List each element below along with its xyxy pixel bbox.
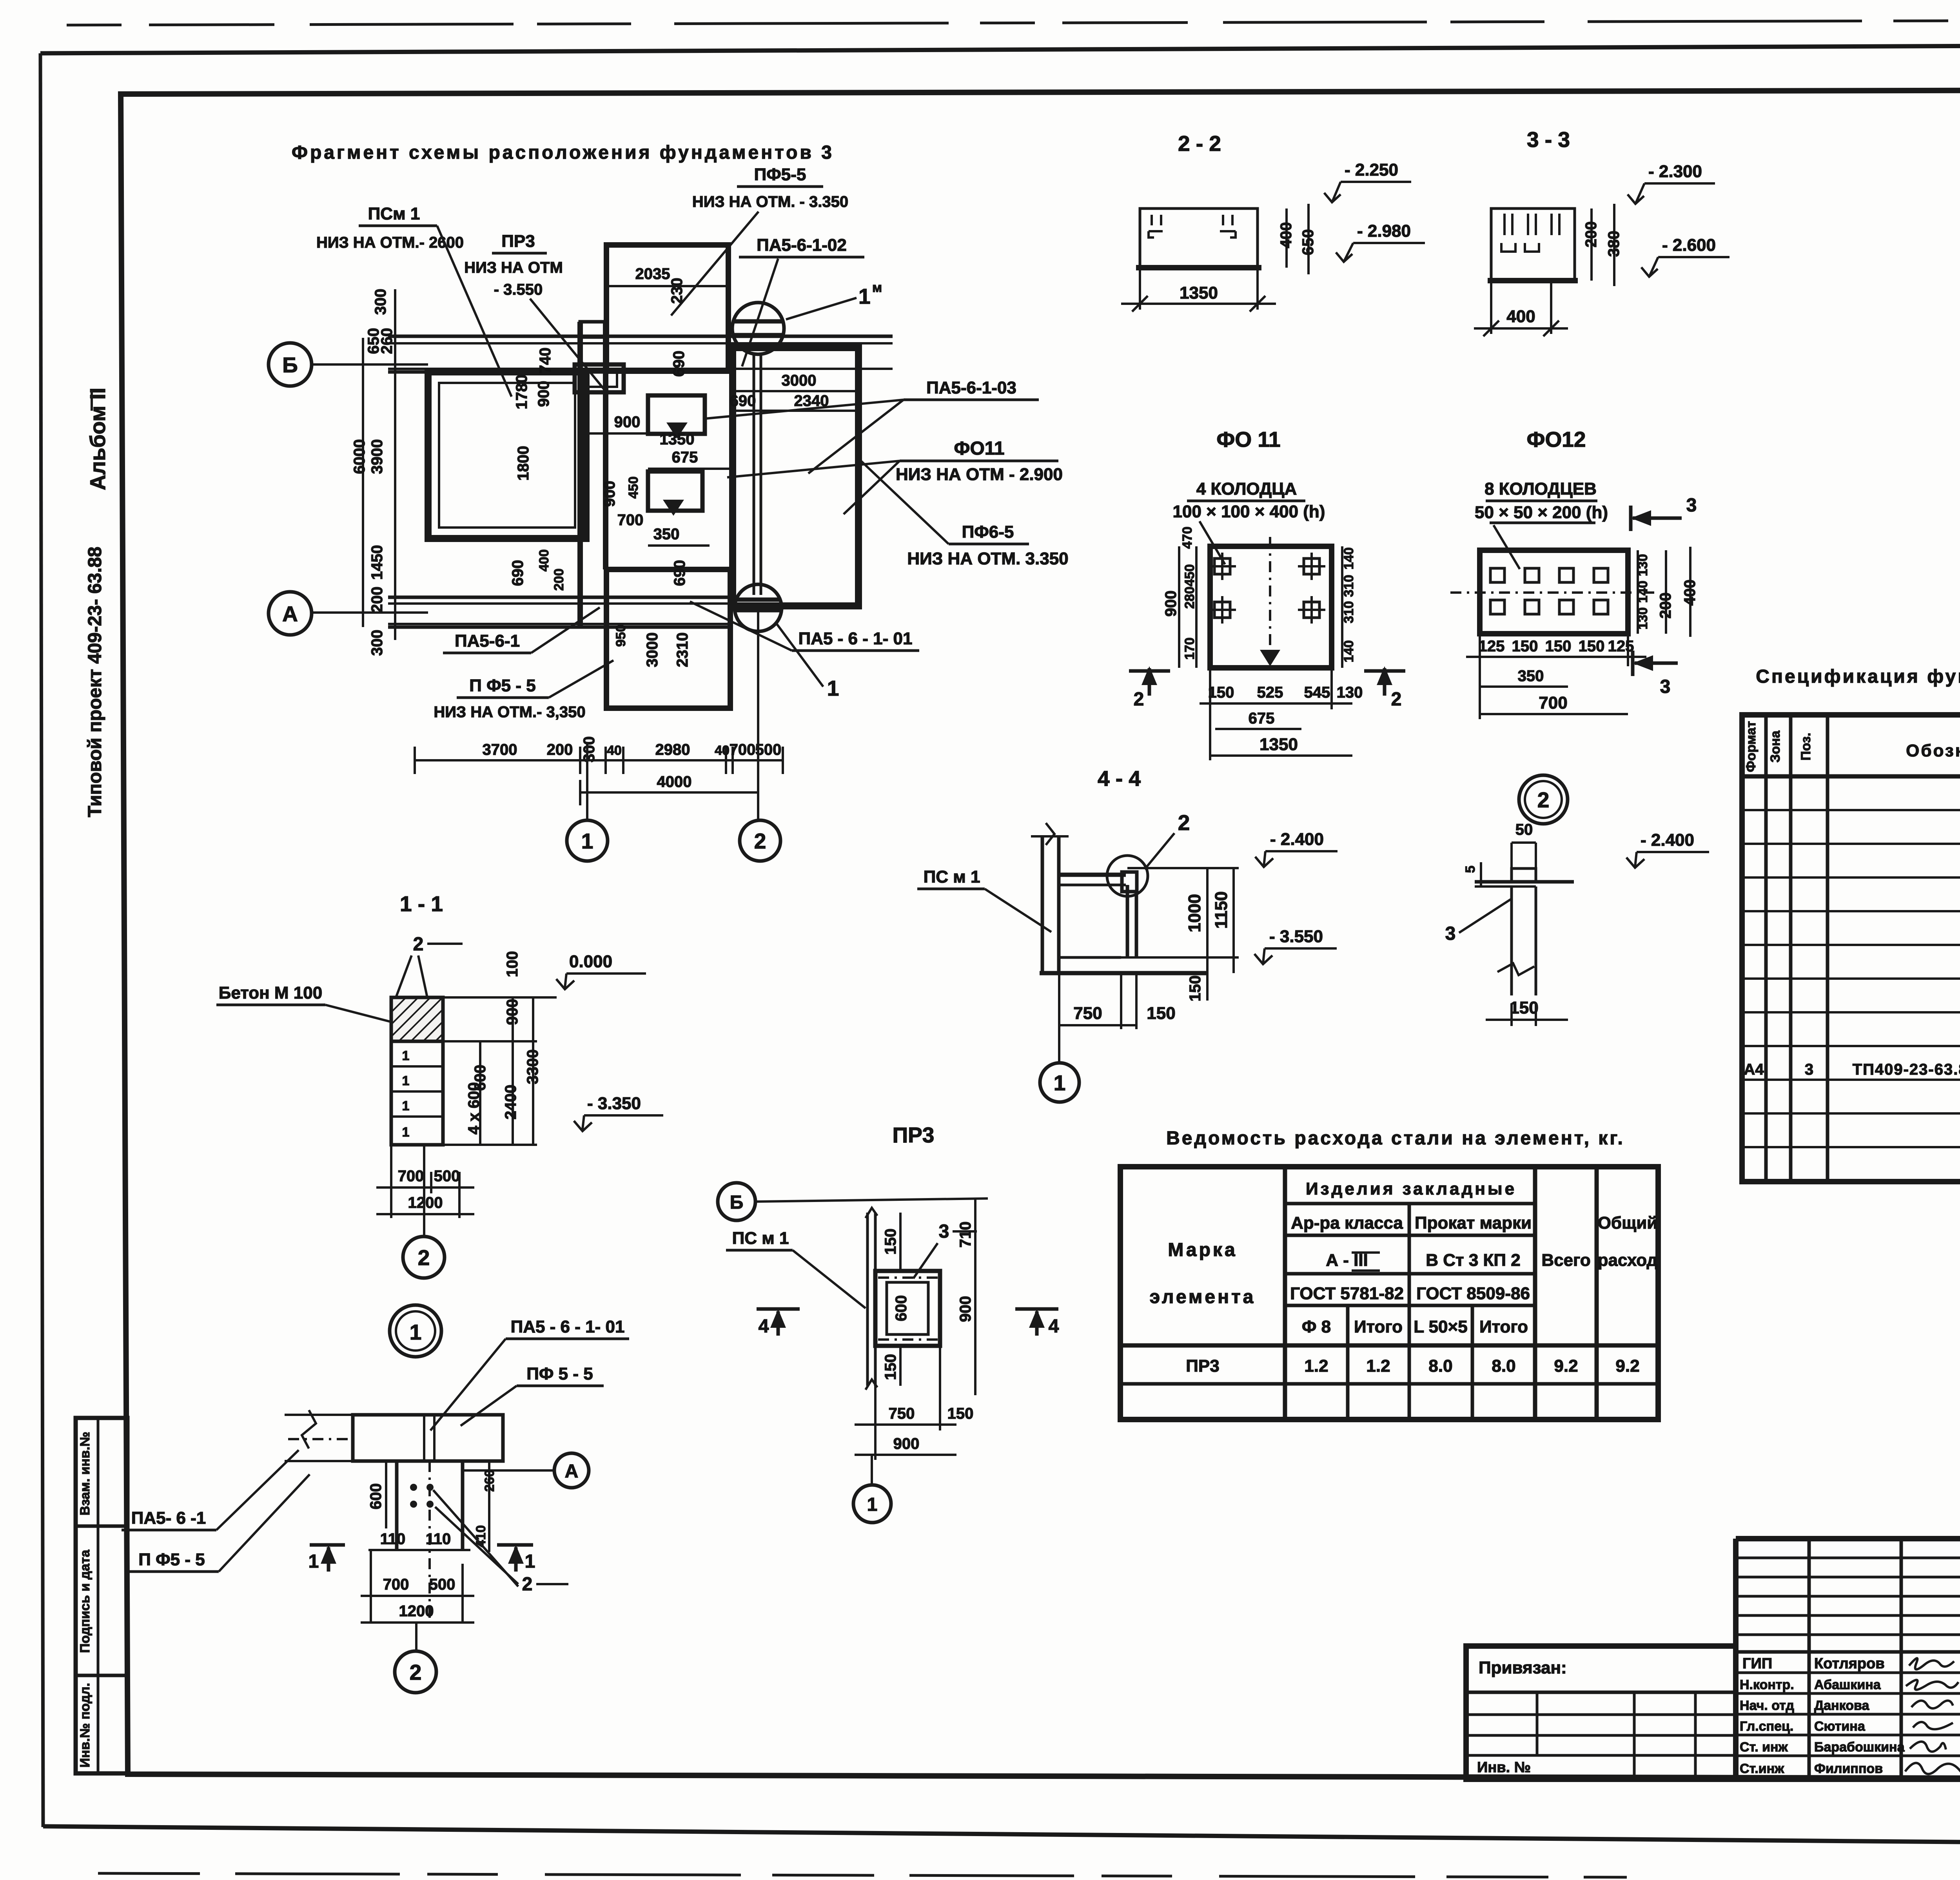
svg-text:ТП409-23-63.88 -КЖИ-Пм-021: ТП409-23-63.88 -КЖИ-Пм-021 <box>1853 1061 1960 1078</box>
svg-text:1000: 1000 <box>1185 894 1204 932</box>
central wall strip left <box>577 322 583 627</box>
svg-text:Ф 8: Ф 8 <box>1302 1317 1331 1336</box>
2-2 right dims <box>1285 208 1288 268</box>
svg-text:1: 1 <box>402 1125 410 1140</box>
svg-text:ПСм 1: ПСм 1 <box>368 204 420 223</box>
svg-text:ПС м 1: ПС м 1 <box>732 1229 789 1248</box>
svg-text:400: 400 <box>1506 307 1535 326</box>
anchor rect lower <box>648 471 702 511</box>
svg-text:Типовой проект 409-23- 63.8: Типовой проект 409-23- 63.88 <box>85 547 105 817</box>
leader PA5-6-1-02 <box>742 259 778 366</box>
leader PSm1 <box>437 226 512 397</box>
svg-text:НИЗ НА ОТМ.- 3,350: НИЗ НА ОТМ.- 3,350 <box>434 703 585 721</box>
svg-text:140: 140 <box>1341 548 1356 570</box>
svg-text:Ар-ра класса: Ар-ра класса <box>1291 1213 1403 1233</box>
svg-text:1350: 1350 <box>1180 283 1218 303</box>
FO11 slab <box>1210 546 1332 668</box>
svg-text:110: 110 <box>426 1530 451 1548</box>
svg-text:450: 450 <box>1182 564 1197 587</box>
svg-text:3700: 3700 <box>483 741 517 758</box>
svg-text:150: 150 <box>882 1354 899 1380</box>
svg-text:Инв. №: Инв. № <box>1477 1759 1531 1776</box>
4-4 corner block <box>1122 872 1137 892</box>
FO11 wells <box>1209 553 1325 624</box>
svg-text:2: 2 <box>413 934 424 955</box>
svg-text:300: 300 <box>368 630 386 656</box>
4-4 pit floor <box>1059 956 1121 959</box>
svg-text:900: 900 <box>893 1435 920 1452</box>
svg-text:Общий: Общий <box>1598 1213 1658 1233</box>
svg-text:3: 3 <box>1686 495 1697 516</box>
svg-text:3: 3 <box>939 1221 949 1242</box>
svg-text:545: 545 <box>1304 684 1330 701</box>
svg-text:700: 700 <box>730 741 756 758</box>
scan artifact top dashes <box>67 20 1960 25</box>
FO11 center line <box>1269 537 1271 651</box>
stamp left edge personnel <box>1733 1539 1739 1779</box>
svg-text:380: 380 <box>1605 231 1622 257</box>
svg-text:ПА5-6-1: ПА5-6-1 <box>455 631 520 651</box>
FO12 section mark 3 bottom <box>1635 662 1678 665</box>
svg-text:ГОСТ 5781-82: ГОСТ 5781-82 <box>1290 1284 1404 1303</box>
svg-text:ПФ5-5: ПФ5-5 <box>754 165 806 184</box>
svg-text:450: 450 <box>626 477 641 499</box>
svg-text:- 3.550: - 3.550 <box>1269 927 1323 946</box>
svg-text:Привязан:: Привязан: <box>1479 1658 1567 1677</box>
svg-text:140: 140 <box>1341 640 1356 663</box>
svg-text:НИЗ НА ОТМ: НИЗ НА ОТМ <box>464 259 563 276</box>
4-4 wall top break <box>1031 823 1069 845</box>
FO12 bottom dims <box>1479 634 1481 719</box>
stamp outer top edge <box>1736 1536 1960 1541</box>
left stamp boxes <box>76 1418 127 1773</box>
spec table header row line <box>1742 774 1960 779</box>
svg-text:200: 200 <box>552 569 566 591</box>
svg-text:2: 2 <box>1134 689 1144 710</box>
svg-text:А4: А4 <box>1744 1061 1764 1078</box>
left dim verticals <box>394 289 396 640</box>
svg-text:470: 470 <box>1180 527 1195 549</box>
svg-text:310: 310 <box>1341 575 1356 597</box>
svg-text:1.2: 1.2 <box>1366 1356 1390 1376</box>
lower shaft <box>395 1461 399 1549</box>
svg-text:2: 2 <box>1178 810 1190 835</box>
svg-text:125: 125 <box>1608 638 1634 655</box>
detail 2 circle <box>1519 775 1568 824</box>
svg-text:130: 130 <box>1635 607 1650 630</box>
anchor arrow upper <box>666 422 688 439</box>
axis circle A <box>269 592 312 635</box>
svg-text:280: 280 <box>1182 587 1197 609</box>
right dims 410 260 <box>488 1461 490 1552</box>
axis line A <box>312 611 395 614</box>
4-4 floor slab double line <box>1059 873 1126 877</box>
svg-text:ГИП: ГИП <box>1742 1655 1772 1672</box>
svg-text:L 50×5: L 50×5 <box>1414 1317 1467 1336</box>
FO11 slab rect <box>733 348 858 606</box>
svg-text:150: 150 <box>1187 975 1204 1002</box>
privyazan grid <box>1466 1691 1736 1694</box>
svg-text:Альбом ІІ: Альбом ІІ <box>85 388 110 490</box>
svg-text:А: А <box>282 602 298 626</box>
svg-text:900: 900 <box>535 381 552 407</box>
steel table verticals <box>1283 1167 1287 1420</box>
svg-text:9.2: 9.2 <box>1554 1356 1578 1376</box>
svg-text:Барабошкина: Барабошкина <box>1814 1740 1905 1755</box>
svg-text:4 х 600: 4 х 600 <box>465 1082 483 1134</box>
outer scan border top <box>40 44 1960 53</box>
svg-text:Инв.№ подл.: Инв.№ подл. <box>78 1683 93 1768</box>
outer scan border bottom <box>43 1826 1960 1847</box>
svg-text:Гл.спец.: Гл.спец. <box>1740 1719 1793 1734</box>
4-4 base slab <box>1040 971 1207 975</box>
FO11 section marks 2 <box>1148 668 1151 696</box>
detail 2 shaft <box>1510 887 1513 995</box>
svg-text:125: 125 <box>1479 638 1505 655</box>
svg-text:350: 350 <box>1518 667 1544 685</box>
svg-text:300: 300 <box>372 289 389 315</box>
svg-text:1.2: 1.2 <box>1304 1356 1328 1376</box>
svg-text:900: 900 <box>601 481 618 507</box>
bottom dims <box>874 1386 877 1460</box>
svg-text:2: 2 <box>522 1574 533 1595</box>
wall double line <box>866 1213 869 1386</box>
svg-text:0.000: 0.000 <box>569 952 612 971</box>
svg-text:Итого: Итого <box>1479 1317 1528 1336</box>
svg-text:130: 130 <box>1635 554 1650 577</box>
svg-text:700: 700 <box>383 1576 409 1593</box>
svg-text:900: 900 <box>1162 591 1180 617</box>
svg-text:4: 4 <box>1049 1316 1059 1337</box>
svg-text:В Ст 3 КП 2: В Ст 3 КП 2 <box>1426 1251 1520 1270</box>
svg-text:150: 150 <box>1512 638 1538 655</box>
bottom line of stamp <box>1466 1777 1960 1782</box>
svg-text:3300: 3300 <box>524 1050 541 1084</box>
svg-text:100 × 100 × 400 (h): 100 × 100 × 400 (h) <box>1173 502 1325 521</box>
svg-text:310: 310 <box>1341 601 1356 624</box>
spec table row lines <box>1742 809 1960 811</box>
svg-text:НИЗ НА ОТМ. 3.350: НИЗ НА ОТМ. 3.350 <box>907 549 1068 568</box>
svg-text:900: 900 <box>614 413 641 431</box>
2-2 lifting loops <box>1149 215 1236 237</box>
svg-text:150: 150 <box>1147 1004 1175 1023</box>
svg-text:740: 740 <box>537 348 554 374</box>
axis 1 circle <box>567 820 608 861</box>
svg-text:Ст.инж: Ст.инж <box>1740 1761 1784 1776</box>
svg-text:400: 400 <box>1278 222 1295 248</box>
steel table horizontals <box>1285 1202 1535 1206</box>
svg-text:1: 1 <box>1054 1071 1066 1095</box>
svg-text:600: 600 <box>893 1295 910 1322</box>
section 4 arrows <box>757 1307 800 1311</box>
svg-text:ФО 11: ФО 11 <box>1216 427 1280 451</box>
svg-text:9.2: 9.2 <box>1615 1356 1639 1376</box>
svg-text:900: 900 <box>957 1296 974 1322</box>
axis circle B <box>269 343 312 386</box>
svg-text:4: 4 <box>759 1316 769 1337</box>
svg-text:ПР3: ПР3 <box>501 232 535 251</box>
leader PA5-6-1 <box>531 607 600 653</box>
svg-text:Фрагмент схемы расположения: Фрагмент схемы расположения фундаментов … <box>292 142 834 163</box>
svg-text:ПС м 1: ПС м 1 <box>924 867 980 887</box>
svg-text:НИЗ НА ОТМ. - 3.350: НИЗ НА ОТМ. - 3.350 <box>692 193 848 210</box>
svg-text:1: 1 <box>827 676 839 700</box>
left break extension <box>285 1410 353 1461</box>
1-1 ladder <box>391 1041 443 1145</box>
outer scan border left <box>40 53 43 1827</box>
svg-text:400: 400 <box>537 549 552 572</box>
svg-text:6000: 6000 <box>351 439 368 474</box>
svg-text:ФО11: ФО11 <box>954 438 1004 459</box>
svg-text:1: 1 <box>402 1048 410 1063</box>
svg-text:500: 500 <box>434 1168 460 1185</box>
svg-text:А: А <box>565 1461 579 1482</box>
4-4 detail circle <box>1107 856 1148 896</box>
axis 1 line to circle <box>586 742 588 820</box>
detail 2 surface lines <box>1475 880 1574 884</box>
svg-text:690: 690 <box>730 392 756 410</box>
svg-text:Абашкина: Абашкина <box>1814 1677 1881 1692</box>
FO12 section mark 3 top <box>1633 517 1682 520</box>
svg-text:40: 40 <box>607 743 622 758</box>
svg-text:ГОСТ 8509-86: ГОСТ 8509-86 <box>1416 1284 1530 1303</box>
svg-text:Спецификация фундаментов ФО1: Спецификация фундаментов ФО11, ФО12, и п… <box>1756 666 1960 687</box>
svg-text:690: 690 <box>670 351 688 377</box>
detail 2 pocket <box>1512 868 1536 882</box>
svg-text:ПР3: ПР3 <box>893 1123 935 1147</box>
svg-text:м: м <box>872 280 882 295</box>
svg-text:2035: 2035 <box>635 265 670 283</box>
bottom slab rect <box>606 569 730 708</box>
svg-text:200: 200 <box>1657 593 1674 619</box>
svg-text:500: 500 <box>429 1576 456 1593</box>
svg-text:600: 600 <box>367 1483 385 1510</box>
svg-text:Прокат марки: Прокат марки <box>1415 1213 1532 1233</box>
svg-text:525: 525 <box>1257 684 1283 701</box>
svg-text:Нач. отд: Нач. отд <box>1740 1698 1794 1713</box>
svg-text:Ведомость расхода стали на: Ведомость расхода стали на элемент, кг. <box>1166 1128 1625 1149</box>
wall band axis B top lines <box>388 335 893 338</box>
anchor arrow lower <box>663 500 684 516</box>
svg-text:3 - 3: 3 - 3 <box>1527 127 1570 152</box>
axis 2 top circle <box>732 303 784 354</box>
svg-text:1: 1 <box>858 284 871 308</box>
svg-text:150: 150 <box>882 1229 899 1255</box>
svg-text:1450: 1450 <box>368 545 386 580</box>
svg-text:2: 2 <box>1391 689 1402 710</box>
detail circle 1 <box>390 1305 441 1357</box>
svg-text:- 2.600: - 2.600 <box>1662 236 1716 255</box>
svg-text:П Ф5 - 5: П Ф5 - 5 <box>469 676 535 695</box>
dim 600 <box>385 1461 387 1528</box>
svg-text:200: 200 <box>1583 221 1600 248</box>
svg-text:750: 750 <box>889 1405 915 1422</box>
personnel table grid <box>1736 1557 1960 1559</box>
strip top notch <box>580 322 606 337</box>
svg-text:- 2.400: - 2.400 <box>1641 830 1694 850</box>
svg-text:2310: 2310 <box>674 633 691 667</box>
svg-text:ПА5 - 6 - 1- 01: ПА5 - 6 - 1- 01 <box>511 1317 625 1336</box>
dims 110 110 <box>368 1549 470 1551</box>
svg-text:Всего: Всего <box>1541 1251 1590 1270</box>
3-3 right dims <box>1590 208 1593 281</box>
1-1 bottom dims <box>390 1145 392 1218</box>
bottom dim line 2 <box>580 791 758 794</box>
svg-text:Бетон М 100: Бетон М 100 <box>219 983 322 1003</box>
svg-text:700: 700 <box>617 511 644 529</box>
4-4 right dims <box>1206 868 1209 1001</box>
svg-text:2: 2 <box>410 1660 422 1684</box>
4-4 right wall vertical <box>1126 885 1129 957</box>
wall band axis B bottom lines <box>388 368 893 370</box>
svg-text:Зона: Зона <box>1768 730 1783 763</box>
svg-text:3: 3 <box>1805 1061 1813 1078</box>
svg-text:Котляров: Котляров <box>1814 1655 1885 1672</box>
FO11 bottom dims <box>1209 668 1211 760</box>
svg-text:350: 350 <box>653 526 680 543</box>
svg-text:3900: 3900 <box>368 439 386 474</box>
FO12 pit outer <box>428 372 586 538</box>
svg-text:40: 40 <box>715 743 730 758</box>
svg-text:230: 230 <box>668 278 686 304</box>
svg-text:Марка: Марка <box>1168 1240 1237 1260</box>
svg-text:1350: 1350 <box>660 431 695 448</box>
svg-text:Поз.: Поз. <box>1798 732 1813 760</box>
svg-text:150: 150 <box>947 1405 974 1422</box>
spec table outer border <box>1742 715 1960 1182</box>
svg-text:Данкова: Данкова <box>1814 1698 1869 1713</box>
svg-text:ФО12: ФО12 <box>1527 427 1586 451</box>
top beam <box>353 1415 503 1461</box>
svg-text:- 3.550: - 3.550 <box>494 281 543 298</box>
svg-text:1: 1 <box>525 1551 535 1572</box>
anchor rect upper <box>648 395 705 434</box>
anchor dots <box>410 1484 417 1491</box>
svg-text:1: 1 <box>867 1494 878 1515</box>
svg-text:675: 675 <box>672 449 698 466</box>
svg-text:Филиппов: Филиппов <box>1814 1761 1883 1776</box>
svg-text:200: 200 <box>547 741 573 758</box>
svg-text:1780: 1780 <box>513 375 530 410</box>
svg-text:- 2.980: - 2.980 <box>1357 221 1411 241</box>
spec table column lines <box>1764 715 1768 1182</box>
svg-text:Обозначение: Обозначение <box>1906 741 1960 760</box>
svg-text:Итого: Итого <box>1354 1317 1403 1336</box>
svg-text:900: 900 <box>504 999 521 1025</box>
svg-text:ПФ 5 - 5: ПФ 5 - 5 <box>526 1364 593 1383</box>
svg-text:700: 700 <box>398 1168 424 1185</box>
svg-text:750: 750 <box>1073 1004 1102 1023</box>
svg-text:1150: 1150 <box>1212 891 1231 928</box>
leader PR3 <box>530 299 604 389</box>
svg-text:П Ф5 - 5: П Ф5 - 5 <box>138 1550 205 1569</box>
section 3-3 body <box>1491 208 1575 281</box>
svg-text:1 - 1: 1 - 1 <box>400 892 443 916</box>
svg-text:675: 675 <box>1249 710 1275 727</box>
left vertical dims <box>899 1213 902 1271</box>
svg-text:- 2.400: - 2.400 <box>1270 830 1324 849</box>
svg-text:8 КОЛОДЦЕВ: 8 КОЛОДЦЕВ <box>1485 479 1597 499</box>
svg-text:150: 150 <box>1579 638 1605 655</box>
privyazan box <box>1466 1646 1736 1779</box>
svg-text:- 2.250: - 2.250 <box>1345 160 1398 179</box>
svg-text:140: 140 <box>1635 581 1650 603</box>
svg-text:ПА5-6-1-02: ПА5-6-1-02 <box>757 236 847 255</box>
scan artifact bottom dashes <box>98 1873 1627 1877</box>
PR3 niche rect <box>575 364 624 392</box>
svg-text:170: 170 <box>1182 638 1197 660</box>
svg-text:8.0: 8.0 <box>1492 1356 1515 1376</box>
axis circle 1 <box>871 1455 873 1485</box>
svg-text:2980: 2980 <box>655 741 690 758</box>
svg-text:Подпись и дата: Подпись и дата <box>78 1549 93 1653</box>
channel outer <box>875 1271 940 1346</box>
column wall double line on axis 2 <box>753 354 755 595</box>
leader PF5-5 right <box>859 459 949 544</box>
svg-text:700: 700 <box>1539 693 1567 712</box>
svg-text:8.0: 8.0 <box>1428 1356 1452 1376</box>
svg-text:1: 1 <box>402 1073 410 1088</box>
FO11 right dims <box>1341 546 1343 668</box>
svg-text:300: 300 <box>581 736 598 763</box>
FO12 center line <box>1450 591 1654 594</box>
leaders PA5-6-1-03 <box>706 400 904 419</box>
svg-text:4000: 4000 <box>657 773 692 790</box>
FO12 slab <box>1480 550 1628 634</box>
svg-text:1: 1 <box>410 1320 422 1344</box>
svg-text:- 2.300: - 2.300 <box>1648 162 1702 181</box>
top slab 2035 rect <box>606 245 728 371</box>
leader PF5-5 bottom <box>549 660 613 698</box>
axis line B <box>312 363 395 366</box>
svg-text:110: 110 <box>380 1530 406 1548</box>
svg-text:2: 2 <box>418 1245 430 1270</box>
svg-text:150: 150 <box>1208 684 1234 701</box>
bottom dim line 1 <box>415 759 784 761</box>
svg-text:расход: расход <box>1598 1251 1658 1270</box>
axis 2 circle <box>740 820 780 861</box>
svg-text:650: 650 <box>1299 229 1317 256</box>
channel inner <box>887 1282 928 1334</box>
svg-text:Формат: Формат <box>1744 721 1759 772</box>
steel table outer border <box>1120 1167 1658 1420</box>
svg-text:Изделия закладные: Изделия закладные <box>1306 1179 1517 1198</box>
axis circle B <box>718 1183 755 1220</box>
svg-text:400: 400 <box>1681 580 1699 606</box>
svg-text:3: 3 <box>1445 923 1456 944</box>
svg-text:130: 130 <box>1337 684 1363 701</box>
svg-text:4 КОЛОДЦА: 4 КОЛОДЦА <box>1196 479 1297 499</box>
FO11 left dims <box>1195 546 1198 668</box>
leaders FO11 <box>727 461 900 477</box>
svg-text:ПФ6-5: ПФ6-5 <box>962 522 1014 542</box>
svg-text:НИЗ НА ОТМ - 2.900: НИЗ НА ОТМ - 2.900 <box>896 465 1063 484</box>
1-1 right dims <box>479 1041 481 1145</box>
svg-text:200: 200 <box>368 587 386 613</box>
svg-text:150: 150 <box>1510 998 1538 1017</box>
svg-text:4 - 4: 4 - 4 <box>1098 766 1141 790</box>
svg-text:ПР3: ПР3 <box>1186 1356 1219 1376</box>
svg-text:Взам. инв.№: Взам. инв.№ <box>78 1432 93 1516</box>
leader PA5-6-1-01 <box>690 602 792 651</box>
svg-text:Ст. инж: Ст. инж <box>1740 1740 1788 1755</box>
4-4 left wall verticals <box>1041 836 1044 973</box>
svg-text:100: 100 <box>504 951 521 977</box>
svg-text:3000: 3000 <box>644 633 661 667</box>
section 1 arrows <box>310 1543 345 1547</box>
FO12 wells <box>1490 568 1608 614</box>
central wall strip right <box>603 322 608 569</box>
